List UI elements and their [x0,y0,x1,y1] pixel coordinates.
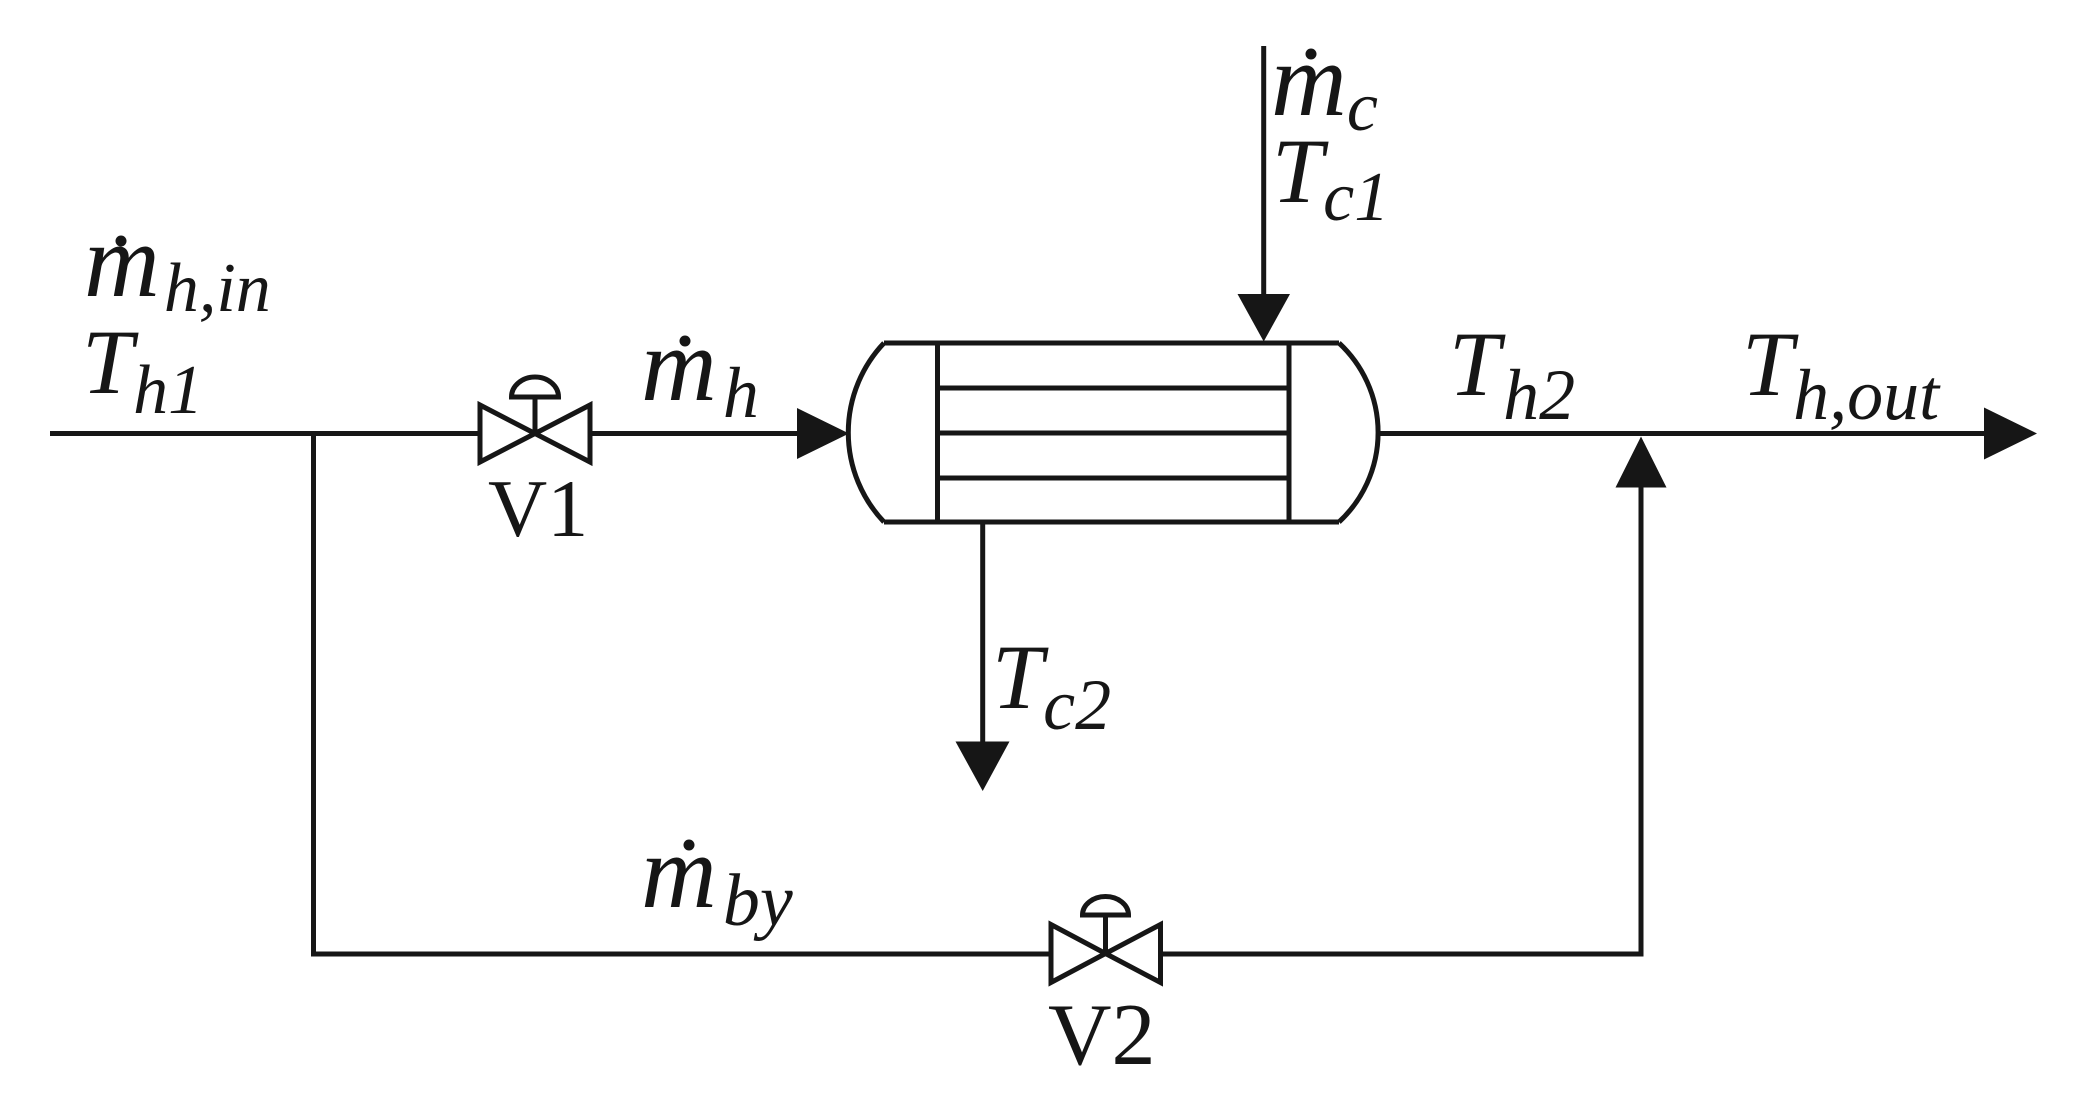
svg-text:V1: V1 [488,463,588,554]
label m-dot by [641,813,793,942]
wire bypass bottom run [311,952,1644,957]
arrow cold outlet down [956,742,1010,792]
heat exchanger right head [1339,343,1378,522]
svg-text:V2: V2 [1048,987,1156,1084]
wire bypass riser [1639,484,1644,954]
arrow into exchanger [797,408,849,459]
valve V2 actuator cap [1083,897,1129,915]
heat exchanger right tube sheet [1287,343,1292,522]
arrow cold inlet down [1238,294,1291,342]
wire outlet line from exchanger to right edge [1380,431,1986,436]
heat exchanger shell [848,343,1378,522]
valve V1 stem [533,398,538,434]
heat exchanger tube line 3 [938,476,1290,481]
valve V2 left wedge [1051,925,1106,983]
heat exchanger tube line 1 [938,386,1290,391]
heat exchanger left head [848,343,884,522]
label m-dot h [641,306,759,433]
valve V1 actuator cap [512,377,559,397]
wire cold outlet vertical [980,522,985,744]
arrow hot outlet right [1984,408,2037,460]
wire cold inlet vertical [1261,46,1266,296]
heat exchanger tube line 2 [938,431,1290,436]
valve V1 right wedge [535,405,590,462]
heat exchanger shell top edge [884,341,1339,346]
wire bypass downcomer [311,431,316,954]
heat exchanger shell bottom edge [884,520,1339,525]
label m-dot h,in [84,202,271,327]
heat exchanger left tube sheet [935,343,940,522]
valve V1 [480,377,590,462]
label m-dot c [1271,21,1378,146]
arrow bypass rejoin up [1616,437,1667,488]
valve V1 left wedge [480,405,535,462]
valve V2 right wedge [1106,925,1161,983]
valve V2 stem [1103,916,1108,954]
wire main hot inlet line [50,431,797,436]
valve V2 [1051,897,1161,983]
